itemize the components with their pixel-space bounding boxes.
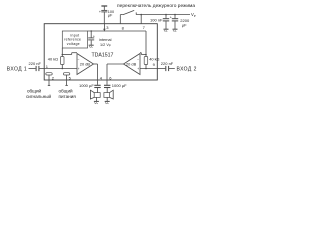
inner box: input reference voltage — [62, 31, 87, 48]
internal bar (pin 5) — [63, 73, 69, 75]
ground (internal) — [89, 44, 94, 46]
capacitor 220nF (input 2) — [165, 66, 167, 71]
op-amp right 20 dB — [124, 54, 141, 75]
wire — [29, 68, 36, 70]
capacitor 100nF — [165, 14, 167, 16]
svg-text:общий: общий — [27, 87, 42, 93]
wire — [39, 68, 44, 70]
svg-text:ВХОД 1: ВХОД 1 — [7, 67, 27, 73]
ground — [94, 100, 99, 102]
wire pin 7 stub — [140, 15, 142, 24]
svg-text:9: 9 — [153, 62, 156, 67]
svg-text:1/2 VP: 1/2 VP — [100, 43, 111, 48]
svg-text:−: − — [137, 58, 139, 62]
svg-text:20 dB: 20 dB — [80, 62, 91, 67]
capacitor 1000uF (right) — [104, 84, 110, 86]
capacitor 100uF (SVR, pin 3) — [101, 9, 107, 11]
svg-text:voltage: voltage — [67, 42, 80, 46]
wire output 1 (pin 4) — [94, 63, 98, 65]
internal bar (pin 2) — [46, 73, 52, 75]
svg-text:питания: питания — [59, 94, 77, 99]
svg-text:1: 1 — [46, 64, 49, 69]
svg-text:+: + — [170, 15, 172, 19]
svg-text:TDA1517: TDA1517 — [92, 52, 114, 58]
wire — [169, 68, 175, 70]
svg-text:µF: µF — [182, 22, 187, 27]
svg-text:+: + — [137, 67, 139, 71]
wire: bus to right resistor — [145, 54, 147, 56]
wire — [103, 6, 105, 10]
svg-text:общий: общий — [59, 87, 74, 93]
svg-text:220 nF: 220 nF — [29, 61, 42, 66]
capacitor 220nF (input 1) — [35, 66, 37, 71]
svg-text:20 dB: 20 dB — [126, 62, 137, 67]
svg-text:+: + — [78, 67, 80, 71]
svg-text:3: 3 — [106, 25, 109, 30]
capacitor 2200uF — [174, 14, 176, 16]
wire input 1 — [44, 68, 77, 70]
svg-text:internal: internal — [99, 38, 112, 42]
svg-text:переключатель дежурного режима: переключатель дежурного режима — [117, 4, 195, 9]
switch (standby) pin 8 — [119, 15, 121, 24]
wire Vp rail — [136, 14, 190, 16]
svg-text:+: + — [99, 10, 101, 14]
resistor 40k (right) — [144, 57, 148, 65]
svg-text:1000 µF: 1000 µF — [112, 83, 127, 88]
wire: ref box to left resistor — [61, 48, 63, 57]
svg-text:ВХОД 2: ВХОД 2 — [177, 67, 197, 73]
node junction — [140, 14, 142, 16]
svg-text:40 kΩ: 40 kΩ — [48, 57, 58, 62]
ground (top, for 100uF) — [101, 5, 107, 7]
wire input 2 — [140, 68, 157, 70]
svg-text:сигнальный: сигнальный — [26, 93, 52, 99]
svg-text:220 nF: 220 nF — [161, 61, 174, 66]
svg-text:7: 7 — [143, 25, 146, 30]
ground — [164, 28, 169, 30]
wire output 2 (pin 6) — [107, 63, 124, 65]
svg-text:−: − — [78, 58, 80, 62]
op-amp left 20 dB — [77, 54, 94, 75]
wire — [157, 68, 165, 70]
capacitor (internal, electrolytic) — [90, 30, 92, 32]
svg-text:µF: µF — [108, 14, 113, 18]
resistor 40k (left) — [61, 57, 65, 65]
loudspeaker (left) — [94, 93, 100, 98]
svg-text:100 nF: 100 nF — [150, 17, 163, 22]
IC box TDA1517 — [44, 24, 157, 80]
loudspeaker (right) — [104, 93, 110, 98]
svg-text:1000 µF: 1000 µF — [79, 83, 94, 88]
wire pin3 stub — [103, 12, 105, 24]
ground — [105, 100, 110, 102]
ground — [173, 28, 178, 30]
svg-text:VP: VP — [191, 12, 196, 18]
pin 3 arrow (to internal node) — [103, 24, 105, 29]
wire half-Vp bus — [88, 30, 146, 32]
svg-text:8: 8 — [122, 26, 125, 31]
capacitor 1000uF (left) — [94, 84, 100, 86]
